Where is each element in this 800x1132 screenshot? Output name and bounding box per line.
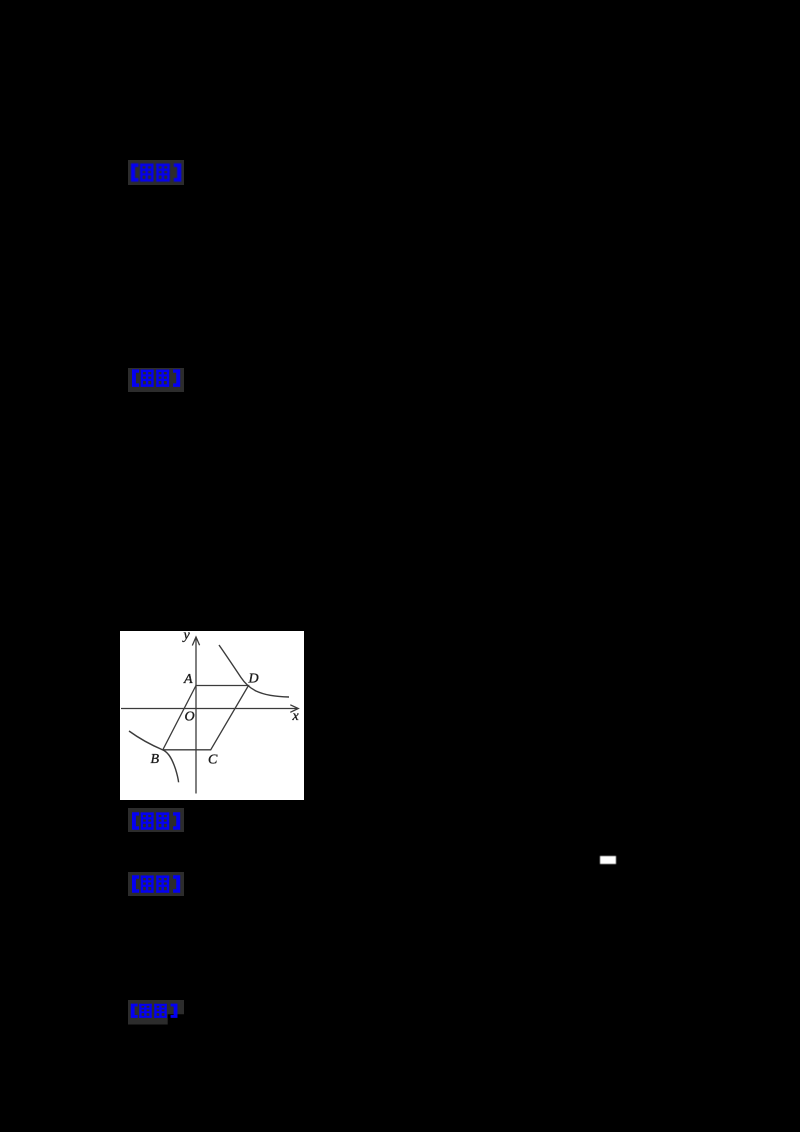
svg-text:O: O: [185, 710, 195, 725]
svg-text:D: D: [248, 672, 259, 687]
inline formula image (white blank): [600, 856, 616, 865]
label 解答 (section label 5, blue on stepped gray highlight): [128, 1000, 184, 1025]
svg-text:x: x: [292, 709, 300, 724]
x-axis: [121, 705, 298, 713]
svg-text:A: A: [183, 672, 193, 687]
svg-text:B: B: [151, 752, 160, 767]
parallelogram ABCD: [163, 686, 249, 750]
figure: coordinate plane with hyperbola and parallelogram ABCD: [120, 631, 304, 800]
svg-text:C: C: [208, 753, 218, 768]
svg-text:y: y: [182, 631, 191, 643]
y-axis: [192, 637, 199, 794]
label 考点 (section label 3, blue on gray): [128, 808, 184, 832]
label 分析 (section label 4, blue on gray): [128, 872, 184, 896]
label 解析 (section label 2, blue on gray): [128, 368, 184, 392]
hyperbola branch 1 (first quadrant): [219, 645, 289, 697]
label 答案 (section label 1, blue on gray): [128, 160, 184, 185]
hyperbola branch 2 (third quadrant): [129, 731, 179, 782]
